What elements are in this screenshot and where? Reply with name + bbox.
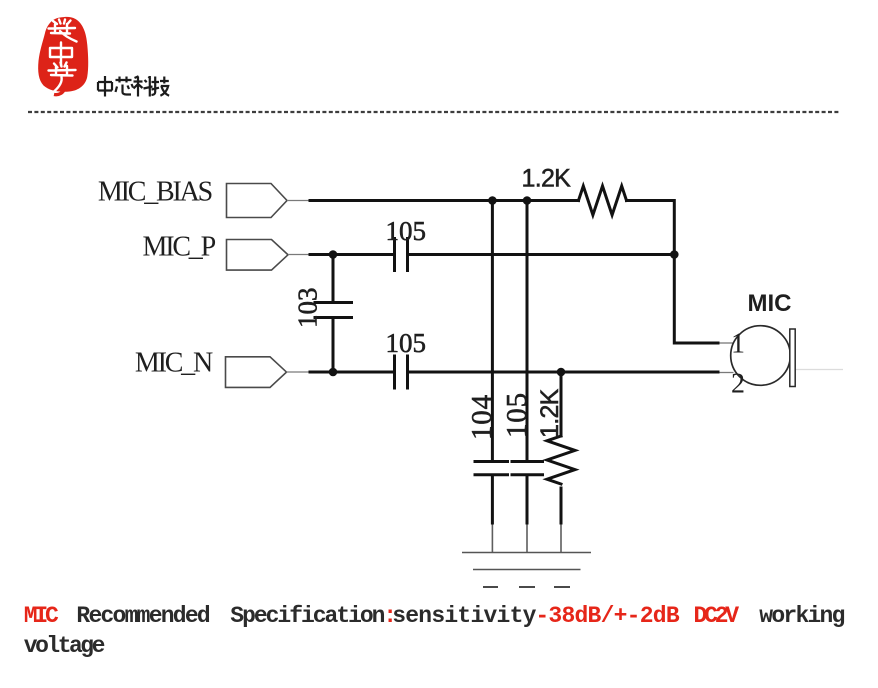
svg-text:1: 1: [731, 329, 745, 360]
svg-text:sensitivity: sensitivity: [392, 603, 536, 629]
svg-text:105: 105: [386, 216, 427, 246]
svg-text:Specification: Specification: [230, 603, 384, 629]
svg-text:Recommended: Recommended: [76, 603, 210, 629]
svg-text:MIC: MIC: [24, 603, 59, 629]
svg-text:105: 105: [386, 328, 427, 358]
svg-text:working: working: [759, 603, 844, 629]
svg-text:1.2K: 1.2K: [522, 165, 572, 193]
svg-text:MIC_N: MIC_N: [135, 347, 213, 378]
svg-text:MIC_P: MIC_P: [143, 232, 216, 263]
svg-text:-38dB/+-2dB: -38dB/+-2dB: [535, 603, 679, 629]
svg-text:103: 103: [293, 288, 323, 329]
svg-text:2: 2: [731, 369, 745, 400]
svg-text:MIC: MIC: [748, 290, 792, 317]
svg-text:105: 105: [501, 392, 533, 438]
svg-text:MIC_BIAS: MIC_BIAS: [98, 176, 212, 207]
svg-text:DC2V: DC2V: [694, 603, 740, 629]
svg-text:104: 104: [466, 394, 498, 440]
svg-text:1.2K: 1.2K: [536, 388, 564, 438]
svg-text:voltage: voltage: [24, 633, 105, 659]
